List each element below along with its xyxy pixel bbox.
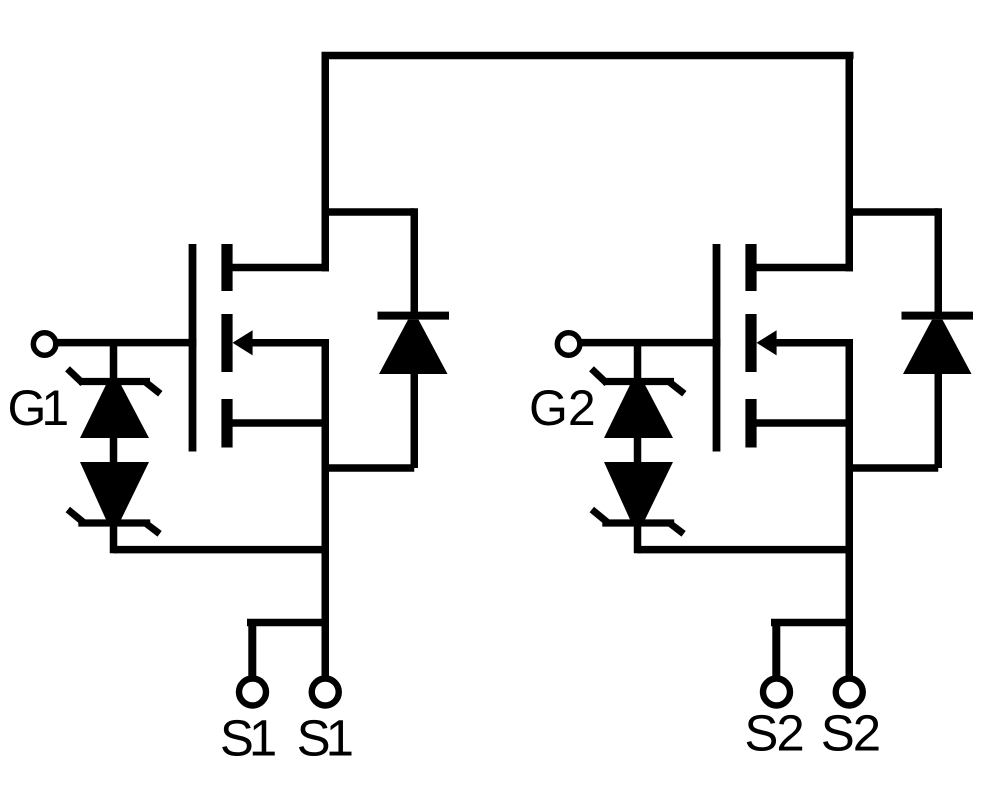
svg-text:S1: S1 — [297, 710, 354, 767]
svg-text:G1: G1 — [8, 380, 70, 436]
svg-text:S2: S2 — [744, 705, 804, 762]
svg-text:G2: G2 — [529, 380, 596, 436]
svg-text:S2: S2 — [821, 705, 881, 762]
svg-text:S1: S1 — [220, 710, 277, 767]
